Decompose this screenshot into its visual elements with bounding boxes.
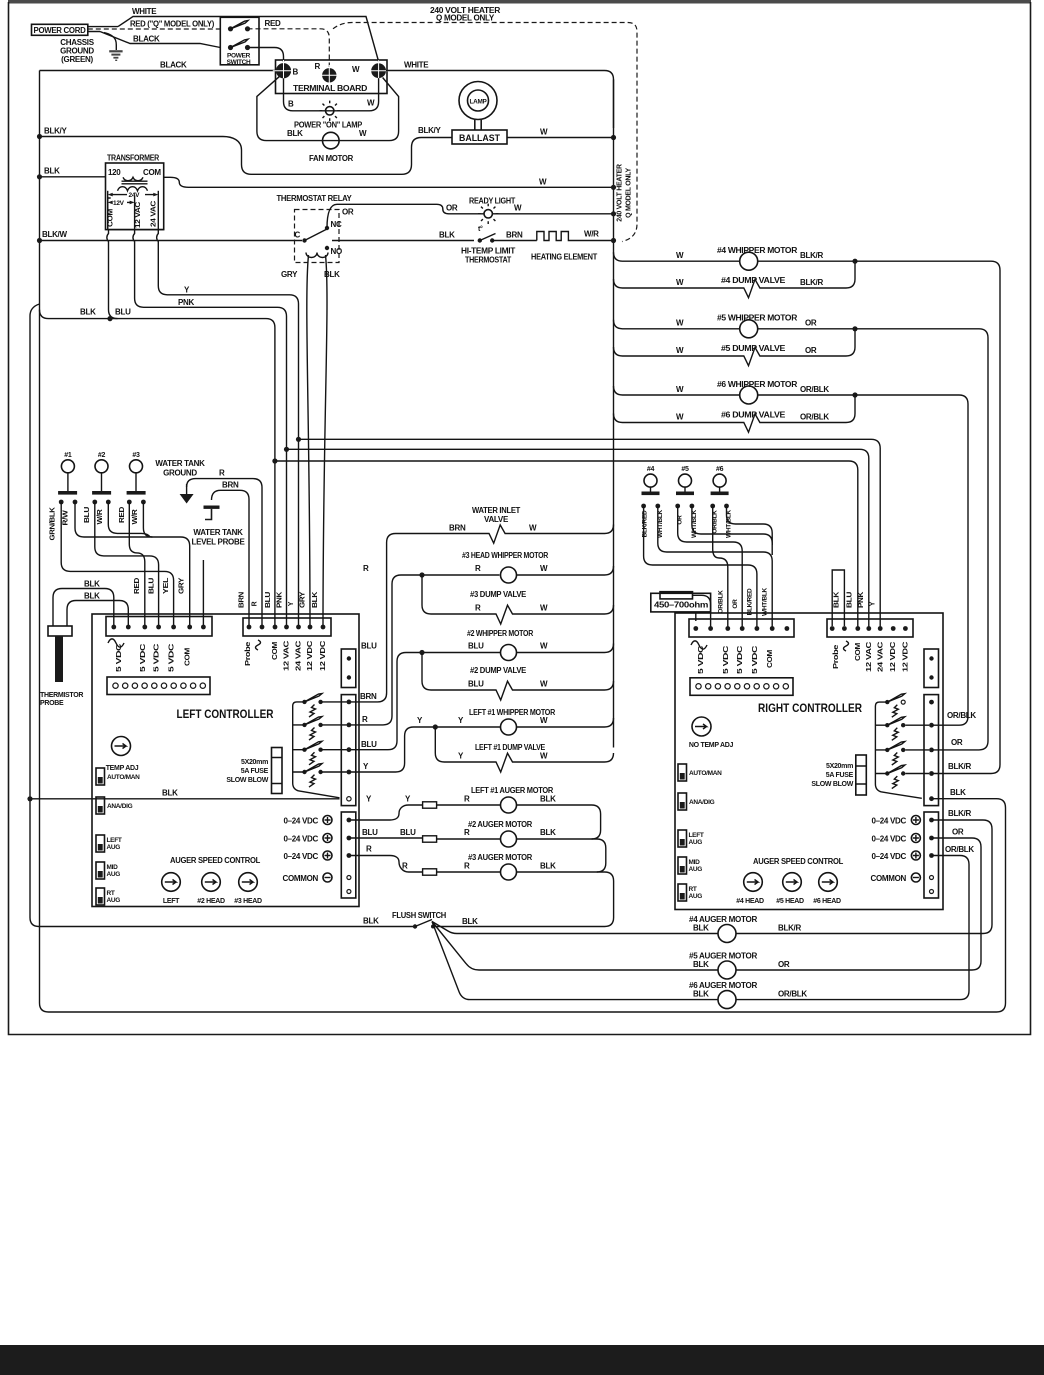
svg-text:W: W — [676, 346, 684, 355]
svg-text:COM: COM — [143, 168, 161, 177]
wire OR #5 auger to controller — [736, 838, 981, 970]
svg-text:BLK: BLK — [324, 270, 340, 279]
svg-text:BRN: BRN — [506, 231, 523, 240]
svg-text:12 VDC: 12 VDC — [890, 642, 897, 672]
right relay contact 3 (OR) — [885, 748, 889, 752]
svg-text:BLK: BLK — [162, 789, 178, 798]
wire Y controller to auger row 1 — [349, 805, 423, 820]
switch LEFT AUG — [96, 835, 105, 852]
svg-text:0–24 VDC: 0–24 VDC — [871, 817, 906, 826]
power on lamp symbol — [326, 107, 334, 115]
svg-text:R: R — [362, 715, 368, 724]
wire Y left #1 dump valve — [435, 727, 613, 772]
wire WHT/BLK probe5 join — [692, 506, 772, 555]
wire W ballast to trunk — [507, 137, 614, 139]
svg-text:WHITE: WHITE — [132, 7, 157, 16]
junction BLK/Y on trunk A — [37, 134, 42, 139]
svg-text:MID: MID — [107, 864, 119, 871]
power switch pole 2 — [228, 45, 233, 50]
svg-text:GRY: GRY — [300, 591, 307, 608]
wire RED dashed 240V heater top run — [333, 23, 637, 242]
svg-text:450–700ohm: 450–700ohm — [654, 601, 708, 610]
wire R/W probe1 to pin6 — [75, 502, 190, 627]
wire BLU controller to #2 whipper — [349, 653, 501, 750]
wire PNK horizontal to right controller 12VAC — [287, 449, 869, 628]
svg-text:BLK/R: BLK/R — [800, 278, 823, 287]
svg-text:W: W — [676, 385, 684, 394]
svg-text:W: W — [540, 128, 548, 137]
svg-text:BLU: BLU — [847, 592, 854, 608]
wire BLK thermistor to pin1 — [53, 589, 114, 628]
left relay terminal strip — [341, 695, 356, 806]
motor left #1 whipper — [501, 719, 517, 735]
right relay contact 4 (BLK/R) — [885, 771, 889, 775]
2-pin connector above relay strip — [341, 649, 356, 688]
motor #2 whipper — [501, 645, 517, 661]
relay contact 1 (BRN) — [302, 700, 306, 704]
svg-text:COM: COM — [767, 649, 774, 668]
svg-text:R: R — [475, 564, 481, 573]
wire BRN controller to water inlet valve to trunk — [349, 525, 614, 702]
transformer inner box — [108, 198, 164, 230]
svg-text:OR: OR — [952, 828, 964, 837]
wire BLK/RED probe4 to pin5 — [644, 506, 757, 629]
junction BLK/W on trunk A — [37, 238, 42, 243]
svg-text:OR: OR — [951, 738, 963, 747]
svg-text:#2 DUMP VALVE: #2 DUMP VALVE — [470, 666, 527, 675]
wire OR/BLK to right controller relay OR/BLK — [855, 395, 968, 725]
svg-text:OR/BLK: OR/BLK — [800, 413, 829, 422]
svg-text:NO TEMP ADJ: NO TEMP ADJ — [689, 742, 734, 749]
svg-text:AUG: AUG — [689, 866, 703, 873]
svg-text:AUG: AUG — [689, 839, 703, 846]
right probe terminal strip — [827, 619, 913, 637]
transformer tap COM lead — [107, 191, 109, 230]
svg-text:BLK: BLK — [540, 862, 556, 871]
transformer core — [122, 181, 148, 184]
svg-text:AUTO/MAN: AUTO/MAN — [689, 770, 722, 777]
svg-text:WATER TANK: WATER TANK — [193, 528, 243, 537]
svg-text:OR: OR — [778, 960, 790, 969]
motor #2 auger — [501, 831, 517, 847]
svg-text:12 VDC: 12 VDC — [320, 641, 327, 671]
svg-text:ANA/DIG: ANA/DIG — [689, 799, 715, 806]
svg-text:W: W — [539, 178, 547, 187]
wire W trunk to #6 dump valve — [614, 397, 856, 432]
svg-text:24 VAC: 24 VAC — [151, 201, 158, 227]
svg-text:W: W — [540, 680, 548, 689]
svg-text:OR: OR — [732, 599, 739, 609]
svg-text:0–24 VDC: 0–24 VDC — [283, 817, 318, 826]
lamp symbol (fluorescent) — [459, 82, 497, 120]
wire BLU #2 dump valve — [422, 653, 614, 701]
svg-text:R: R — [315, 62, 321, 71]
right relay bus — [875, 702, 921, 798]
junction #5 — [852, 326, 857, 331]
wire W #1 whipper to trunk — [517, 718, 614, 727]
wire W #3 head whipper to trunk — [517, 566, 614, 575]
svg-text:PNK: PNK — [178, 298, 195, 307]
svg-text:BLK/Y: BLK/Y — [418, 126, 441, 135]
transformer tap 24VAC lead — [157, 191, 159, 230]
svg-text:#4 HEAD: #4 HEAD — [736, 898, 764, 905]
svg-text:BLK/Y: BLK/Y — [44, 127, 67, 136]
450-700ohm label box — [651, 593, 711, 612]
svg-text:12V: 12V — [113, 200, 125, 207]
svg-text:PNK: PNK — [858, 592, 865, 608]
NO TEMP ADJ knob — [692, 717, 711, 736]
motor #4 auger — [718, 925, 736, 943]
svg-text:POWER CORD: POWER CORD — [34, 26, 86, 35]
450-700ohm resistor — [660, 592, 693, 599]
motor left #1 auger — [501, 797, 517, 813]
svg-text:5A FUSE: 5A FUSE — [241, 768, 269, 775]
svg-text:WATER TANK: WATER TANK — [155, 459, 205, 468]
svg-text:BLU: BLU — [361, 642, 377, 651]
right controller box — [675, 613, 943, 910]
svg-text:0–24 VDC: 0–24 VDC — [283, 852, 318, 861]
wire WHITE from power cord — [118, 17, 379, 62]
svg-text:5 VDC: 5 VDC — [698, 646, 705, 674]
svg-text:AUGER SPEED CONTROL: AUGER SPEED CONTROL — [753, 857, 843, 866]
svg-text:COM: COM — [185, 647, 192, 666]
left 10-pin connector — [107, 677, 210, 695]
svg-text:BLU: BLU — [468, 680, 484, 689]
svg-text:BLK: BLK — [540, 828, 556, 837]
svg-text:BLK: BLK — [44, 167, 60, 176]
motor #3 head whipper — [501, 567, 517, 583]
svg-text:AUTO/MAN: AUTO/MAN — [107, 774, 140, 781]
svg-text:0–24 VDC: 0–24 VDC — [871, 852, 906, 861]
svg-text:W: W — [359, 129, 367, 138]
svg-text:COM: COM — [855, 642, 862, 661]
relay coil — [306, 253, 328, 258]
svg-text:(GREEN): (GREEN) — [61, 55, 93, 64]
svg-text:R: R — [363, 564, 369, 573]
svg-text:GRN/BLK: GRN/BLK — [50, 507, 57, 540]
svg-text:OR: OR — [805, 346, 817, 355]
wire R resistor to auger motor 2 — [437, 838, 501, 840]
lamp stems — [475, 119, 481, 130]
svg-text:12 VDC: 12 VDC — [307, 641, 314, 671]
page border frame — [9, 2, 1031, 1035]
knob #6 HEAD — [819, 873, 838, 892]
svg-text:Y: Y — [288, 601, 295, 606]
svg-text:READY LIGHT: READY LIGHT — [469, 197, 515, 206]
wire stubs 0-24 pins to exterior — [932, 820, 937, 856]
svg-text:12 VAC: 12 VAC — [135, 202, 142, 228]
resistor auger 3 — [423, 869, 437, 875]
svg-text:B: B — [293, 68, 299, 77]
junction #4 — [852, 259, 857, 264]
svg-text:AUGER SPEED CONTROL: AUGER SPEED CONTROL — [170, 856, 260, 865]
svg-text:GRY: GRY — [179, 577, 186, 594]
wire BLK auger2 U-turn to row 3 — [517, 839, 606, 872]
thermistor probe — [48, 626, 72, 636]
svg-text:RED: RED — [119, 507, 126, 523]
svg-text:5 VDC: 5 VDC — [116, 644, 123, 672]
transformer box — [106, 163, 164, 230]
right relay contact 2 (OR/BLK) — [885, 723, 889, 727]
svg-text:12 VAC: 12 VAC — [866, 642, 873, 672]
junction COM W on trunk — [611, 185, 616, 190]
wire fan loop (B to W) — [257, 77, 399, 141]
svg-text:BLU: BLU — [400, 828, 416, 837]
svg-text:Q MODEL ONLY: Q MODEL ONLY — [436, 14, 495, 23]
svg-text:R: R — [252, 601, 259, 606]
wire BLACK from power cord to power switch — [100, 32, 220, 48]
right 10-pin connector — [690, 678, 793, 696]
2-pin connector above right relay strip — [924, 649, 939, 688]
svg-text:THERMOSTAT: THERMOSTAT — [465, 256, 511, 265]
relay contact NO — [325, 246, 329, 250]
svg-text:MID: MID — [689, 859, 701, 866]
water tank level probe symbol — [204, 506, 220, 509]
svg-text:BRN: BRN — [449, 524, 466, 533]
svg-text:PROBE: PROBE — [40, 700, 64, 707]
svg-text:W: W — [352, 65, 360, 74]
svg-text:OR: OR — [342, 208, 354, 217]
hi-temp limit thermostat switch — [478, 238, 482, 242]
svg-text:BLK: BLK — [439, 231, 455, 240]
svg-text:BLU: BLU — [361, 740, 377, 749]
svg-text:#2: #2 — [98, 452, 106, 459]
wire BRN thermostat to heating element — [492, 240, 537, 242]
flush switch — [413, 924, 417, 928]
junction ready light W on trunk — [611, 211, 616, 216]
water tank ground symbol — [186, 484, 188, 494]
wire BLK relay to hi-temp thermostat — [332, 240, 474, 242]
TEMP ADJ knob — [112, 737, 131, 756]
flush fan wire to #6 auger — [432, 922, 718, 1000]
svg-text:THERMISTOR: THERMISTOR — [40, 692, 83, 699]
svg-text:W: W — [676, 319, 684, 328]
junction PNK branch — [284, 447, 289, 452]
resistor auger 2 — [423, 836, 437, 842]
svg-text:BLK: BLK — [540, 795, 556, 804]
svg-text:POWER "ON" LAMP: POWER "ON" LAMP — [294, 121, 363, 130]
svg-text:BLK: BLK — [287, 129, 303, 138]
svg-text:BLK: BLK — [84, 580, 100, 589]
wire W trunk to #4 whipper motor — [614, 252, 740, 261]
svg-text:LEFT #1 DUMP VALVE: LEFT #1 DUMP VALVE — [475, 743, 546, 752]
wire OR #5 whipper to junction — [758, 328, 855, 330]
wire OR/BLK #6 whipper to junction — [758, 394, 855, 396]
terminal B — [276, 63, 291, 78]
wire GRN/BLK probe1 to pin5 — [61, 502, 173, 627]
relay contact C — [302, 238, 306, 242]
vertical trunk A (black) with bottom loop to right controller BLK — [40, 71, 1006, 1013]
svg-text:RT: RT — [689, 886, 697, 893]
knob #4 HEAD — [744, 873, 763, 892]
relay bus — [293, 702, 340, 798]
wire tap COM down (hop) to BLK/BLU junction — [107, 230, 118, 319]
svg-text:WATER INLET: WATER INLET — [472, 506, 520, 515]
svg-text:WHT/BLK: WHT/BLK — [762, 587, 769, 615]
wire OR/BLK probe6 to pin3 — [713, 506, 728, 629]
svg-text:BLU: BLU — [84, 507, 91, 523]
wire resistor to pin2 — [693, 595, 711, 628]
svg-text:12 VDC: 12 VDC — [903, 642, 910, 672]
wire W ready light to trunk — [493, 213, 614, 215]
svg-text:BLK: BLK — [312, 592, 319, 608]
relay contact 2 (R) — [302, 723, 306, 727]
svg-text:0–24 VDC: 0–24 VDC — [871, 835, 906, 844]
left controller box — [92, 614, 359, 907]
svg-text:120: 120 — [108, 168, 121, 177]
fuse right controller — [856, 755, 867, 795]
svg-text:W: W — [540, 564, 548, 573]
svg-text:R/W: R/W — [63, 510, 70, 526]
svg-text:COM: COM — [272, 641, 279, 660]
svg-text:W: W — [540, 604, 548, 613]
motor #6 auger — [718, 991, 736, 1009]
svg-text:240 VOLT HEATER: 240 VOLT HEATER — [617, 164, 624, 222]
svg-text:LEFT: LEFT — [689, 832, 704, 839]
svg-text:#6 HEAD: #6 HEAD — [813, 898, 841, 905]
left 5VDC terminal strip — [106, 617, 212, 637]
wire RED probe3 to pin3 — [129, 502, 145, 627]
wire BLK auger3 U-turn to flush line — [433, 872, 614, 927]
svg-text:BLK/R: BLK/R — [778, 924, 801, 933]
switch AUTO/MAN right — [678, 764, 687, 781]
svg-text:LEVEL PROBE: LEVEL PROBE — [191, 538, 245, 547]
left 0-24VDC terminal strip — [341, 812, 356, 898]
junction ballast W on trunk — [611, 135, 616, 140]
svg-text:C: C — [295, 231, 301, 240]
svg-text:12 VAC: 12 VAC — [284, 641, 291, 671]
svg-text:W: W — [676, 413, 684, 422]
junction W/R on trunk — [611, 238, 616, 243]
brace pins 1-2 — [691, 641, 707, 649]
svg-text:R: R — [402, 862, 408, 871]
svg-text:W: W — [367, 99, 375, 108]
junction #6 — [852, 392, 857, 397]
svg-text:BALLAST: BALLAST — [459, 133, 500, 144]
svg-text:Probe: Probe — [245, 641, 252, 666]
svg-text:BLACK: BLACK — [133, 35, 160, 44]
thermostat relay dashed box — [295, 210, 340, 263]
svg-text:TRANSFORMER: TRANSFORMER — [107, 154, 159, 163]
fan motor symbol — [323, 132, 340, 149]
heating element symbol — [537, 232, 579, 241]
wire BLACK switch to terminal B — [248, 48, 284, 63]
svg-text:YEL: YEL — [163, 577, 170, 594]
svg-text:FAN MOTOR: FAN MOTOR — [309, 154, 354, 163]
svg-text:#5: #5 — [681, 466, 689, 473]
svg-text:TEMP ADJ: TEMP ADJ — [106, 765, 139, 772]
ready light symbol — [484, 210, 492, 218]
wire lamp loop (B to W) — [284, 78, 379, 111]
svg-text:Probe: Probe — [833, 644, 840, 669]
wire W/R element to trunk — [579, 240, 614, 242]
wire BLK/R #4 whipper to junction — [758, 260, 855, 262]
svg-text:#3 DUMP VALVE: #3 DUMP VALVE — [470, 590, 527, 599]
svg-text:BLK: BLK — [693, 924, 709, 933]
svg-text:#3 HEAD: #3 HEAD — [234, 898, 262, 905]
wire BLACK long to vertical trunk A — [40, 70, 278, 72]
svg-text:t°: t° — [478, 225, 483, 233]
wire BLK into controller (to fuse/relay common) — [30, 798, 340, 800]
wire W trunk to #4 dump valve — [614, 263, 856, 298]
svg-text:BLK: BLK — [950, 788, 966, 797]
wire pin1 stub — [695, 612, 697, 621]
svg-text:W: W — [540, 752, 548, 761]
junction #1 dump feed — [433, 724, 438, 729]
svg-text:HI-TEMP LIMIT: HI-TEMP LIMIT — [461, 247, 515, 256]
svg-text:#3 AUGER MOTOR: #3 AUGER MOTOR — [468, 853, 532, 862]
svg-text:B: B — [288, 100, 294, 109]
relay contact 4 (Y) — [302, 770, 306, 774]
svg-text:Q MODEL ONLY: Q MODEL ONLY — [626, 168, 633, 218]
wire R water tank ground to pin2 — [187, 479, 262, 627]
wire OR to right controller relay OR — [855, 329, 988, 750]
svg-text:5 VDC: 5 VDC — [154, 644, 161, 672]
svg-text:RED ("Q" MODEL ONLY): RED ("Q" MODEL ONLY) — [130, 20, 215, 29]
svg-text:#6: #6 — [716, 466, 724, 473]
power cord box — [32, 24, 88, 35]
svg-text:WHITE: WHITE — [404, 61, 429, 70]
wire RED dashed from switch to terminal R — [248, 29, 330, 67]
junction #3 dump feed — [419, 572, 424, 577]
svg-text:#5 WHIPPER MOTOR: #5 WHIPPER MOTOR — [717, 314, 798, 323]
chassis ground wire — [104, 33, 116, 51]
transformer primary winding — [123, 177, 143, 180]
svg-text:BLK: BLK — [834, 592, 841, 608]
vertical trunk B branch (to flush switch) — [30, 304, 413, 927]
wire OR from NC to ready light — [327, 204, 484, 228]
power switch pole 1 — [228, 26, 233, 31]
svg-text:SLOW BLOW: SLOW BLOW — [811, 781, 853, 788]
wire BLK from trunk A to transformer 120 — [40, 176, 106, 178]
svg-text:W: W — [676, 278, 684, 287]
svg-text:Y: Y — [870, 601, 877, 606]
svg-text:GROUND: GROUND — [163, 469, 197, 478]
svg-text:#2 WHIPPER MOTOR: #2 WHIPPER MOTOR — [467, 629, 533, 638]
svg-text:5 VDC: 5 VDC — [723, 646, 730, 674]
svg-text:BLU: BLU — [468, 642, 484, 651]
svg-text:BLK: BLK — [693, 990, 709, 999]
svg-text:5X20mm: 5X20mm — [826, 763, 853, 770]
junction #2 dump feed — [419, 650, 424, 655]
svg-text:OR/BLK: OR/BLK — [778, 990, 807, 999]
svg-text:BLK: BLK — [693, 960, 709, 969]
wire OR probe5 to pin4 — [678, 506, 743, 629]
svg-text:RT: RT — [107, 890, 115, 897]
svg-text:OR/BLK: OR/BLK — [800, 385, 829, 394]
relay blade — [305, 229, 328, 241]
svg-text:VALVE: VALVE — [484, 515, 509, 524]
svg-text:BLK/RED: BLK/RED — [747, 588, 754, 615]
svg-text:#6 WHIPPER MOTOR: #6 WHIPPER MOTOR — [717, 380, 798, 389]
wire BLK horizontal from trunk A to controller pin3 — [40, 310, 275, 627]
svg-text:BLK: BLK — [462, 917, 478, 926]
wire Y horizontal to right controller 24VAC — [299, 439, 881, 628]
wire BLU probe2 to pin4 — [95, 502, 159, 627]
probe jumper bracket — [832, 570, 844, 626]
wire R resistor to auger motor 3 — [437, 871, 501, 873]
svg-text:NC: NC — [331, 220, 342, 229]
svg-text:LAMP: LAMP — [470, 99, 488, 106]
wire W trunk to #5 whipper motor — [614, 320, 740, 329]
terminal R — [322, 68, 336, 82]
svg-text:PNK: PNK — [277, 592, 284, 608]
svg-text:SLOW BLOW: SLOW BLOW — [226, 777, 268, 784]
svg-text:5 VDC: 5 VDC — [169, 644, 176, 672]
svg-text:W: W — [540, 642, 548, 651]
wire BLK auger1 U-turn to row 2 — [517, 805, 601, 839]
svg-text:W: W — [676, 251, 684, 260]
